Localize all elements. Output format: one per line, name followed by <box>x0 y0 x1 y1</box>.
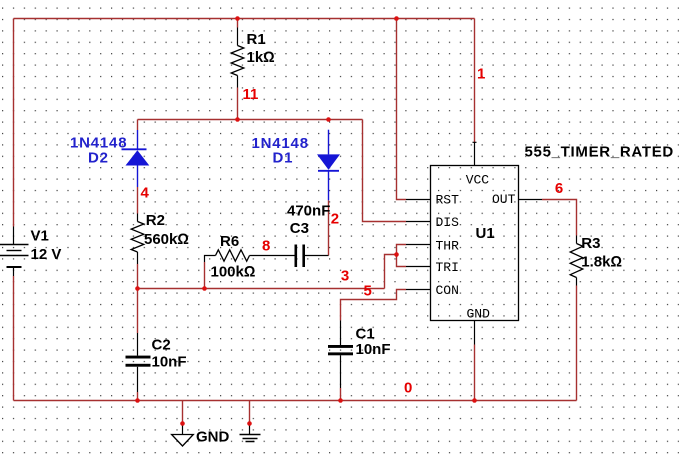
svg-text:R6: R6 <box>220 233 239 250</box>
svg-text:U1: U1 <box>476 225 495 242</box>
pin TRI <box>406 260 459 275</box>
svg-text:TRI: TRI <box>436 260 459 275</box>
svg-text:R3: R3 <box>581 235 600 252</box>
node junction gnd stub 1 <box>180 421 185 426</box>
battery V1 <box>0 227 61 277</box>
svg-text:10nF: 10nF <box>356 341 391 358</box>
svg-text:V1: V1 <box>31 228 49 245</box>
node junction D1 top <box>326 117 331 122</box>
wire R6 branch down to net 3 <box>204 262 206 289</box>
node junction R1 top <box>235 16 240 21</box>
svg-text:2: 2 <box>331 211 339 228</box>
wire R3 bottom to bottom rail <box>576 286 578 401</box>
wire left rail from top to battery <box>13 19 15 227</box>
svg-text:VCC: VCC <box>466 173 490 188</box>
pin RST <box>406 193 459 208</box>
wire top rail down to VCC net 1 <box>474 19 476 143</box>
diode D2 <box>70 130 149 187</box>
svg-text:CON: CON <box>436 283 459 298</box>
svg-text:5: 5 <box>364 283 372 300</box>
pin THR <box>406 238 459 253</box>
svg-text:555_TIMER_RATED: 555_TIMER_RATED <box>525 144 674 161</box>
svg-text:4: 4 <box>141 185 150 202</box>
node junction THR TRI <box>394 252 399 257</box>
resistor R3 <box>570 235 622 286</box>
node junction net3 left <box>135 286 140 291</box>
op-amp U1 555 timer box <box>431 144 674 321</box>
svg-text:GND: GND <box>196 429 230 446</box>
wire ground stub 2 <box>249 401 251 424</box>
capacitor C3 <box>287 203 330 268</box>
pin OUT <box>492 192 542 207</box>
wire R1 bottom to net 11 <box>237 19 239 120</box>
node junction RST branch <box>394 16 399 21</box>
wire C2 top from net 3 <box>137 289 139 334</box>
capacitor C1 <box>328 320 391 388</box>
svg-text:RST: RST <box>436 193 460 208</box>
svg-text:1.8kΩ: 1.8kΩ <box>581 254 622 271</box>
pin CON <box>406 283 459 298</box>
svg-text:C2: C2 <box>152 337 171 354</box>
svg-text:0: 0 <box>404 380 412 397</box>
wire D1 cathode down to C3 right net 2 <box>328 200 330 255</box>
resistor R1 <box>231 28 275 88</box>
wire net 3 horizontal <box>138 288 385 290</box>
node junction C1 bottom <box>338 398 343 403</box>
node junction R6 branch <box>202 286 207 291</box>
wire C2 bottom to bottom rail <box>137 392 139 401</box>
svg-text:OUT: OUT <box>492 192 516 207</box>
ground GND triangle symbol <box>172 424 230 447</box>
wire OUT to R3 net 6 <box>542 200 577 236</box>
svg-text:1: 1 <box>477 66 485 83</box>
svg-text:470nF: 470nF <box>287 203 330 220</box>
wire net 11 down to D2 <box>137 120 139 131</box>
svg-text:6: 6 <box>555 180 563 197</box>
wire U1 GND pin to bottom rail <box>474 345 476 401</box>
svg-text:560kΩ: 560kΩ <box>144 231 189 248</box>
wire R2 bottom to net 3 <box>137 264 139 289</box>
wire battery bottom to bottom rail <box>13 276 15 401</box>
wire THR to TRI tie <box>397 245 407 267</box>
diode D1 <box>252 130 341 201</box>
svg-text:8: 8 <box>262 238 270 255</box>
wire ground stub 1 <box>182 401 184 424</box>
node junction gnd stub 2 <box>247 421 252 426</box>
wire CON to C1 net 5 <box>341 290 407 321</box>
wire THR/TRI junction to net 3 <box>385 255 397 289</box>
svg-text:D2: D2 <box>88 150 109 167</box>
svg-text:11: 11 <box>243 86 259 103</box>
ground earth symbol <box>240 424 261 442</box>
wire bottom rail net 0 <box>14 400 577 402</box>
wire top rail net 1 <box>14 18 475 20</box>
svg-text:GND: GND <box>467 307 491 322</box>
pin VCC <box>466 142 490 188</box>
svg-text:R1: R1 <box>247 31 266 48</box>
resistor R2 <box>131 212 189 264</box>
pin DIS <box>406 215 459 230</box>
wire top rail down to RST <box>397 19 407 200</box>
svg-text:R2: R2 <box>146 212 165 229</box>
pin GND <box>467 307 491 345</box>
svg-text:3: 3 <box>341 268 349 285</box>
svg-text:C1: C1 <box>356 326 375 343</box>
svg-text:1kΩ: 1kΩ <box>247 49 275 66</box>
node junction C2 bottom <box>135 398 140 403</box>
svg-text:100kΩ: 100kΩ <box>211 264 256 281</box>
svg-text:D1: D1 <box>273 150 294 167</box>
svg-text:C3: C3 <box>290 220 309 237</box>
wire net 11 down to DIS <box>363 120 407 222</box>
wire D2 anode to R2 net 4 <box>137 187 139 214</box>
wire net 11 horizontal <box>138 119 363 121</box>
capacitor C2 <box>126 333 187 392</box>
node junction R1 bottom <box>235 117 240 122</box>
node junction U1 GND <box>472 398 477 403</box>
svg-text:10nF: 10nF <box>152 354 187 371</box>
wire C1 bottom to bottom rail <box>340 388 342 401</box>
svg-text:12 V: 12 V <box>31 246 62 263</box>
svg-text:THR: THR <box>436 238 460 253</box>
resistor R6 <box>205 233 296 281</box>
svg-text:DIS: DIS <box>436 215 460 230</box>
